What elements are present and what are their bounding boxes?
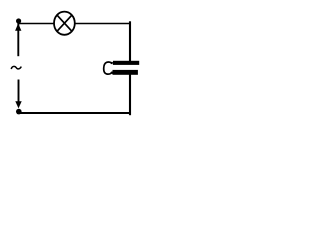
wire right upper: corner down to capacitor top plate bbox=[129, 21, 131, 61]
wire right lower: capacitor bottom plate to bottom-right corner bbox=[129, 75, 131, 116]
AC source symbol ~ bbox=[11, 66, 21, 69]
AC source upper arrow (shaft + head pointing up to node A) bbox=[15, 23, 21, 56]
lamp EL (circle with X) bbox=[54, 12, 75, 35]
node A (top-left terminal junction) bbox=[16, 18, 21, 23]
wire top: node A to top-right corner bbox=[19, 23, 131, 25]
AC source lower arrow (shaft + head pointing down to node B) bbox=[15, 80, 21, 109]
node B (bottom-left terminal junction) bbox=[16, 109, 22, 115]
wire bottom: corner to node B bbox=[19, 112, 131, 114]
label C bbox=[104, 62, 113, 74]
capacitor C plates bbox=[113, 61, 140, 75]
